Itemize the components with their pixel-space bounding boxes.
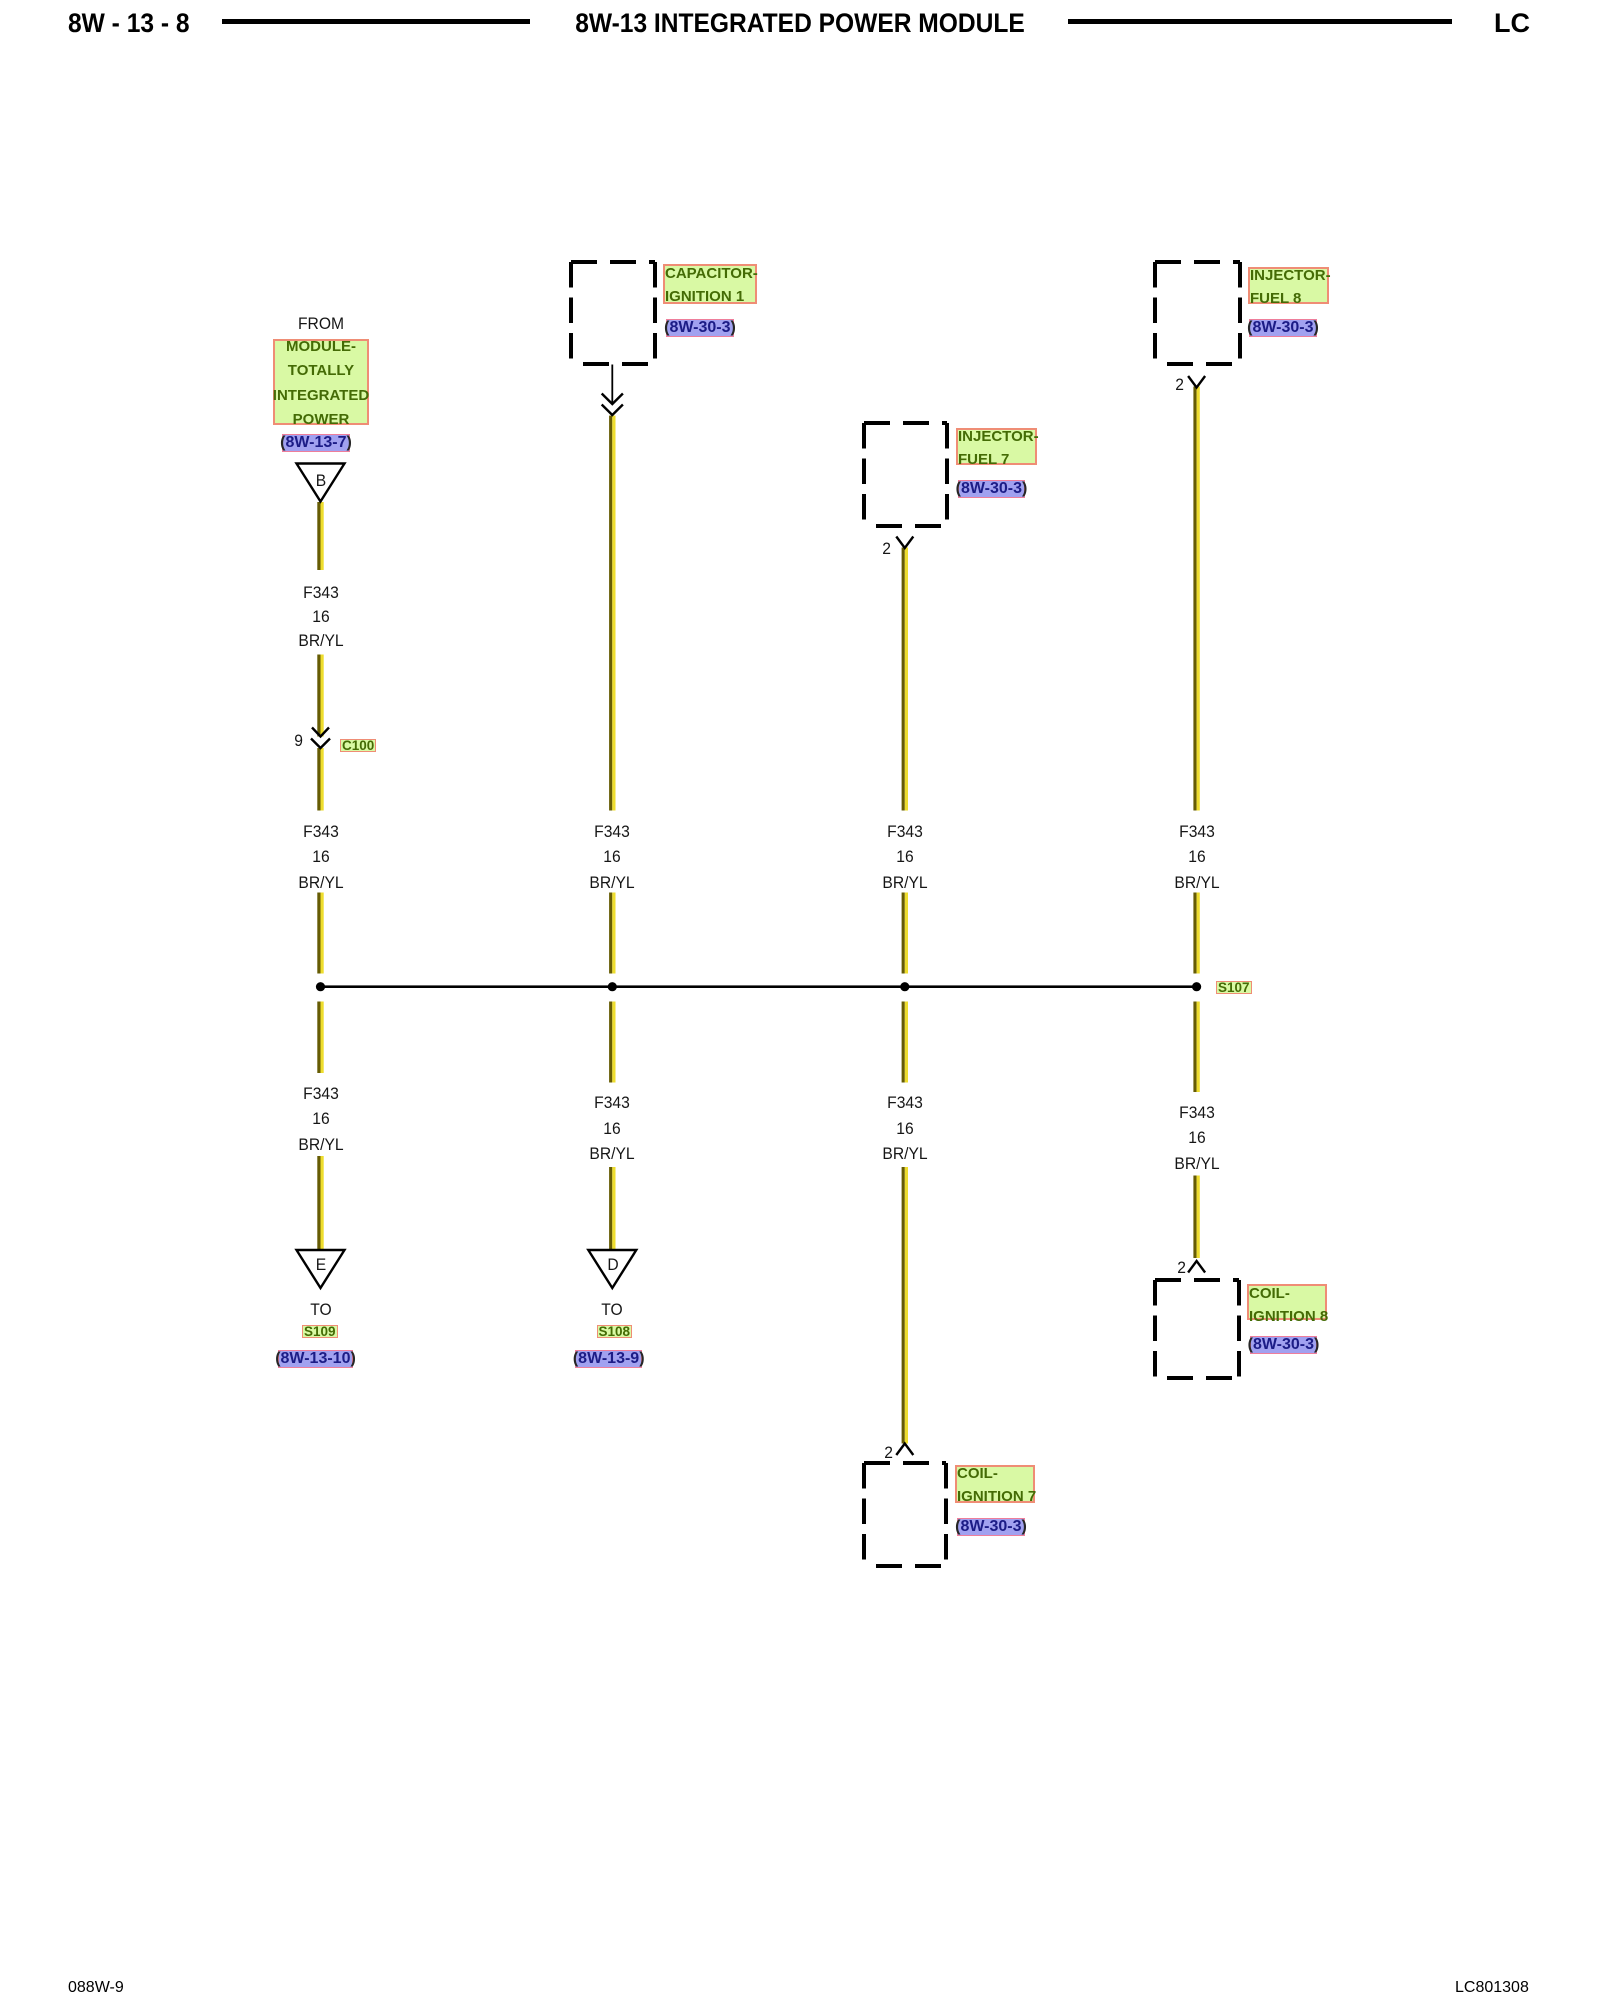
node TO (S108) (520, 1300, 704, 1320)
wire label F343 16 BR/YL col4 below bus (1105, 1100, 1289, 1176)
triangle letter E (229, 1255, 413, 1275)
page header right code (1494, 8, 1530, 38)
component INJECTOR-FUEL 8 dashed box (1155, 262, 1240, 364)
label COIL-IGNITION 8 (1247, 1284, 1327, 1320)
node FROM label (229, 314, 413, 334)
pin 2 number at injector-fuel 7 (817, 539, 891, 559)
wire F343 col3 seg3 (below bus) (902, 1002, 908, 1083)
junction dot col2 (608, 982, 617, 991)
splice label S109 (302, 1325, 338, 1338)
junction dot S107 col4 (1192, 982, 1201, 991)
wire F343 col4 seg4 (to coil 8 pin 2) (1193, 1176, 1199, 1259)
pin 2 number at coil-ignition 7 (819, 1443, 893, 1463)
connector triangle E (297, 1250, 345, 1288)
wire F343 col3 seg2 (to bus) (902, 893, 908, 974)
link (8W-30-3) injector 7 to 8W-30-3 (892, 479, 1092, 498)
wire label F343 16 BR/YL col4 above bus (1105, 819, 1289, 895)
connector triangle D (588, 1250, 636, 1288)
link (8W-30-3) capacitor to 8W-30-3 (600, 318, 800, 337)
splice label C100 (340, 739, 376, 752)
component COIL-IGNITION 7 dashed box (864, 1463, 946, 1566)
pin 9 label at C100 (229, 731, 303, 751)
wire label F343 16 BR/YL col2 below bus (520, 1090, 704, 1166)
component CAPACITOR-IGNITION 1 dashed box (571, 262, 655, 364)
footer left code (68, 1979, 124, 1997)
arrow from capacitor-ignition 1 (602, 365, 623, 416)
wire F343 col3 seg1 (from injector 7 pin 2) (902, 548, 908, 811)
wire label F343 16 BR/YL col1 upper (229, 581, 413, 653)
wire F343 col2 seg3 (below bus) (609, 1002, 615, 1083)
splice label S108 (597, 1325, 633, 1338)
pin 2 number at injector-fuel 8 (1110, 375, 1184, 395)
wire F343 col1 seg5 (below bus) (317, 1002, 323, 1074)
wire F343 col1 seg1 (below triangle B) (317, 502, 323, 570)
wire label F343 16 BR/YL col1 above bus (229, 819, 413, 895)
link (8W-13-7) to 8W-13-7 (216, 433, 416, 452)
component INJECTOR-FUEL 7 dashed box (864, 423, 947, 526)
label INJECTOR-FUEL 7 (956, 428, 1037, 465)
component COIL-IGNITION 8 dashed box (1155, 1280, 1239, 1378)
page title (436, 8, 1164, 38)
link (8W-13-9) to S108 8W-13-9 (509, 1349, 709, 1368)
wire label F343 16 BR/YL col3 below bus (813, 1090, 997, 1166)
junction dot col3 (900, 982, 909, 991)
wire label F343 16 BR/YL col3 above bus (813, 819, 997, 895)
wire F343 col4 seg1 (from injector 8 pin 2) (1193, 387, 1199, 811)
connector triangle B (297, 464, 345, 502)
link (8W-30-3) injector 8 to 8W-30-3 (1183, 318, 1383, 337)
pin 2 connector at injector-fuel 8 (1188, 376, 1205, 388)
junction dot col1 (316, 982, 325, 991)
triangle letter B (229, 471, 413, 491)
label CAPACITOR-IGNITION 1 (663, 264, 757, 304)
pin 2 connector at injector-fuel 7 (896, 537, 913, 549)
wire splice S107 horizontal bus (321, 985, 1197, 988)
header rule right (1068, 19, 1452, 24)
wire F343 col2 seg2 (to bus) (609, 893, 615, 974)
link (8W-13-10) to S109 8W-13-10 (216, 1349, 416, 1368)
pin 2 connector at coil-ignition 8 (1188, 1261, 1205, 1273)
header rule left (222, 19, 530, 24)
wire F343 col4 seg2 (to bus) (1193, 893, 1199, 974)
wire F343 col1 seg3 (below C100) (317, 748, 323, 811)
page header left code (68, 8, 190, 38)
wire label F343 16 BR/YL col2 above bus (520, 819, 704, 895)
pin 2 connector at coil-ignition 7 (896, 1444, 913, 1456)
wire F343 col3 seg4 (to coil 7 pin 2) (902, 1167, 908, 1444)
link (8W-30-3) coil 7 to 8W-30-3 (891, 1517, 1091, 1536)
splice label S107 (1216, 981, 1252, 994)
connector C100 double chevron (pin 9) (311, 728, 330, 749)
label MODULE-TOTALLY INTEGRATED POWER (273, 339, 369, 425)
label INJECTOR-FUEL 8 (1248, 267, 1329, 304)
node TO (S109) (229, 1300, 413, 1320)
wire label F343 16 BR/YL col1 below bus (229, 1081, 413, 1157)
footer right code (1455, 1979, 1529, 1997)
triangle letter D (521, 1255, 705, 1275)
wire F343 col2 seg4 (to triangle D) (609, 1167, 615, 1250)
wire F343 col4 seg3 (below bus) (1193, 1002, 1199, 1093)
pin 2 number at coil-ignition 8 (1112, 1258, 1186, 1278)
link (8W-30-3) coil 8 to 8W-30-3 (1184, 1335, 1384, 1354)
wire F343 col1 seg6 (to triangle E) (317, 1156, 323, 1250)
wire F343 col2 seg1 (from capacitor arrow) (609, 416, 615, 811)
label COIL-IGNITION 7 (955, 1465, 1035, 1503)
wire F343 col1 seg4 (to splice S107 bus) (317, 893, 323, 974)
wire F343 col1 seg2 (to C100) (317, 655, 323, 737)
